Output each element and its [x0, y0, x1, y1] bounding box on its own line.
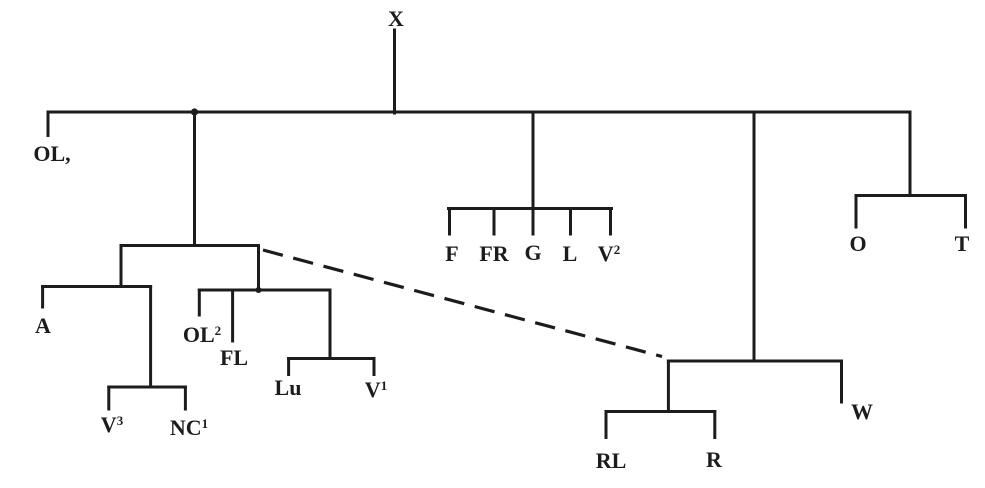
wire FR tick — [493, 209, 496, 235]
wire bar OL2 — [199, 289, 330, 292]
wire comb stem — [532, 112, 535, 209]
svg-text:L: L — [563, 241, 578, 266]
wire NC1 tick — [184, 387, 187, 409]
svg-text:V2: V2 — [598, 241, 620, 266]
wire Lu tick — [287, 359, 290, 375]
wire W drop — [840, 361, 843, 402]
wire dashed contamination line — [263, 250, 662, 357]
node junction dot 2 — [256, 287, 262, 293]
svg-text:R: R — [706, 447, 723, 472]
wire OL2 tick — [198, 290, 201, 315]
svg-text:OL2: OL2 — [183, 322, 221, 347]
wire bar4 — [668, 360, 841, 363]
wire R tick — [713, 412, 716, 438]
wire L tick — [569, 209, 572, 235]
wire G tick — [532, 209, 535, 235]
svg-text:O: O — [849, 231, 866, 256]
wire FL tick — [231, 290, 234, 341]
wire bar4-left vertical — [667, 361, 670, 412]
wire X stem — [393, 30, 396, 113]
wire T tick — [964, 196, 967, 228]
wire O tick — [855, 196, 858, 228]
svg-text:V1: V1 — [365, 377, 387, 402]
wire bar3 — [109, 386, 186, 389]
wire branch-3 vertical — [753, 112, 756, 361]
wire O-T stem — [909, 112, 912, 196]
wire bar1-right vertical — [257, 246, 260, 291]
wire main horizontal bar — [48, 111, 910, 114]
svg-text:NC1: NC1 — [170, 415, 208, 440]
wire bar1 — [121, 244, 259, 247]
wire branch-1 vertical — [193, 112, 196, 246]
wire comb bar — [449, 207, 612, 210]
svg-text:G: G — [524, 240, 541, 265]
wire OL drop — [47, 112, 50, 136]
svg-text:FR: FR — [479, 241, 509, 266]
svg-text:X: X — [388, 6, 404, 31]
svg-text:Lu: Lu — [275, 375, 302, 400]
wire V3 tick — [107, 387, 110, 409]
svg-text:A: A — [35, 313, 51, 338]
wire RL tick — [605, 412, 608, 438]
wire barOL2-right vertical — [329, 290, 332, 359]
wire F tick — [448, 209, 451, 235]
svg-text:W: W — [851, 399, 873, 424]
wire bar1-left vertical — [120, 246, 123, 287]
wire V1 tick — [373, 359, 376, 375]
svg-text:RL: RL — [596, 448, 627, 473]
svg-text:T: T — [955, 231, 970, 256]
svg-text:FL: FL — [220, 345, 248, 370]
wire A tick — [41, 287, 44, 308]
wire bar Lu — [289, 357, 374, 360]
svg-text:V3: V3 — [101, 412, 124, 437]
wire bar2-right vertical — [149, 287, 152, 388]
svg-text:F: F — [445, 241, 458, 266]
wire bar6 — [856, 194, 966, 197]
svg-text:OL,: OL, — [33, 141, 70, 166]
wire bar5 — [606, 410, 715, 413]
node junction dot — [191, 108, 198, 115]
wire V2 tick — [609, 209, 612, 235]
wire bar2 — [43, 285, 151, 288]
